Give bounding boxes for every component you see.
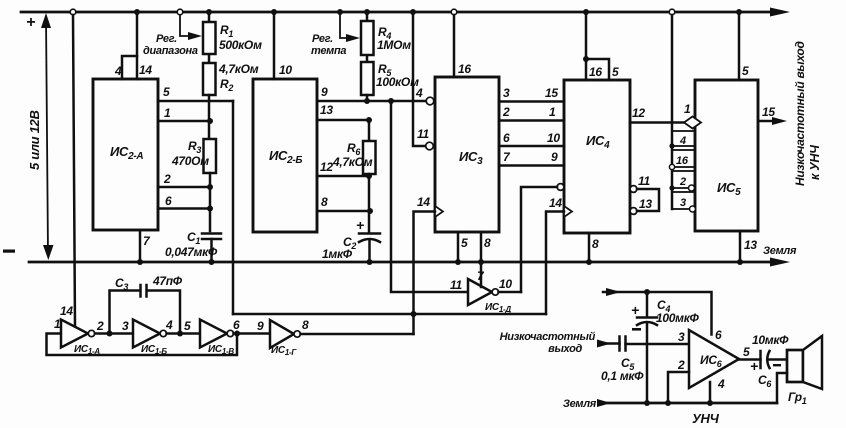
inverter ИС1-Г — [270, 320, 294, 348]
wire IC2-A pin5 to osc bus — [232, 101, 235, 314]
svg-text:500кОм: 500кОм — [219, 38, 262, 52]
svg-text:4: 4 — [679, 135, 686, 147]
wire pin 15 output — [758, 120, 779, 123]
svg-text:3: 3 — [503, 86, 510, 100]
node open circle rail x180 (range pot tap) — [177, 9, 183, 15]
wire supply line with arrow — [603, 292, 712, 335]
resistor R4 — [366, 12, 369, 62]
wire pin 5 output — [739, 358, 761, 361]
wire pin9 net down to IC1-Д input — [391, 101, 468, 292]
svg-text:+: + — [631, 302, 639, 318]
capacitor C5 — [620, 337, 626, 351]
svg-text:5 или 12В: 5 или 12В — [27, 110, 42, 170]
svg-text:C3: C3 — [115, 276, 128, 292]
wire pins 16/5 bracket from rail — [586, 12, 609, 80]
pin 14 clock symbol — [435, 206, 443, 217]
svg-text:C6: C6 — [758, 373, 772, 389]
wire output to x521 — [499, 291, 522, 294]
svg-text:9: 9 — [321, 85, 328, 99]
svg-text:13: 13 — [639, 197, 652, 211]
svg-text:5: 5 — [612, 65, 619, 79]
svg-text:2: 2 — [163, 172, 171, 186]
wire Б out to В in — [167, 332, 201, 335]
svg-text:+: + — [750, 358, 758, 374]
svg-text:+: + — [356, 217, 364, 233]
wire pin 14 clock — [414, 212, 436, 315]
capacitor C3 — [110, 291, 181, 334]
pin 2 box — [672, 171, 695, 188]
svg-text:6: 6 — [165, 194, 172, 208]
node open circle rail x73 — [70, 9, 76, 15]
svg-text:УНЧ: УНЧ — [692, 411, 720, 426]
svg-text:1: 1 — [549, 105, 556, 119]
svg-text:5: 5 — [743, 345, 750, 359]
svg-text:7: 7 — [143, 234, 151, 248]
svg-text:4: 4 — [114, 64, 122, 78]
pin D input circle — [557, 184, 564, 191]
svg-text:10мкФ: 10мкФ — [752, 333, 789, 347]
svg-text:ИС1-В: ИС1-В — [208, 344, 234, 356]
pin 3 box — [672, 192, 695, 209]
wire speaker return — [777, 373, 787, 403]
wire pin 8 to ground — [588, 233, 591, 262]
svg-text:13: 13 — [320, 103, 333, 117]
wire amp ground rail — [599, 402, 777, 405]
svg-text:0,1 мкФ: 0,1 мкФ — [601, 369, 644, 383]
node junction dot pin1/R2 — [207, 118, 213, 124]
svg-text:5: 5 — [163, 85, 170, 99]
svg-text:ИС1-Д: ИС1-Д — [485, 302, 511, 314]
wire pin 13 to ground — [739, 231, 742, 262]
svg-text:10: 10 — [499, 277, 512, 291]
svg-text:ИС1-Б: ИС1-Б — [141, 344, 167, 356]
svg-text:10: 10 — [547, 131, 560, 145]
pin 4 input circle — [426, 97, 434, 105]
wire input arrow — [599, 342, 620, 345]
svg-text:Рег.: Рег. — [156, 33, 177, 45]
node junction dot rail R4 — [364, 9, 370, 15]
wire pin 5 — [158, 100, 233, 103]
wire pin 5 from rail — [738, 12, 741, 80]
node junction dot pin2/R3 — [207, 184, 213, 190]
node junction dot rail R1 — [206, 9, 212, 15]
node open circle rail x672 — [669, 9, 675, 15]
wire range pot tap arrow — [180, 15, 196, 36]
speaker Гр1 — [787, 350, 803, 382]
inverter ИС1-Д — [468, 279, 492, 305]
resistor R3 — [204, 139, 217, 173]
svg-text:16: 16 — [676, 155, 689, 167]
counter U3 ИС3 box — [435, 77, 499, 232]
svg-text:ИС4: ИС4 — [586, 133, 610, 151]
svg-text:диапазона: диапазона — [143, 45, 198, 57]
node minus label — [3, 250, 15, 253]
resistor R2 — [203, 63, 216, 95]
svg-text:4: 4 — [415, 86, 423, 100]
svg-text:100мкФ: 100мкФ — [656, 311, 699, 325]
node junction dot pin7 ground — [137, 259, 143, 265]
wire osc bus horizontal — [233, 313, 546, 316]
wire pin 5 to ground — [457, 232, 460, 262]
wire left pins feed — [671, 15, 674, 209]
wire voltage span arrow line — [46, 17, 48, 254]
wire pin 11 from rail — [413, 12, 426, 146]
svg-text:ИС3: ИС3 — [459, 149, 483, 167]
svg-text:4,7кОм: 4,7кОм — [332, 155, 373, 169]
melody chip U5 ИС5 box — [695, 80, 758, 231]
op-amp U1 ИС2-А box — [93, 79, 158, 230]
svg-text:6: 6 — [715, 328, 722, 342]
wire A out to Б in — [95, 332, 133, 335]
wire +V top rail — [21, 11, 776, 14]
svg-text:4: 4 — [165, 318, 173, 332]
pin 14 clock symbol — [564, 206, 572, 217]
pin 13 circle — [630, 208, 637, 215]
pin 4 box — [672, 131, 695, 146]
wire pin 16 from rail — [453, 15, 456, 77]
svg-text:15: 15 — [762, 105, 775, 119]
inverter ИС1-Б — [133, 320, 160, 348]
svg-text:1: 1 — [164, 106, 171, 120]
svg-text:16: 16 — [458, 62, 471, 76]
svg-text:R2: R2 — [220, 77, 233, 93]
svg-text:1: 1 — [684, 102, 691, 116]
svg-text:4: 4 — [717, 377, 725, 391]
svg-text:C1: C1 — [187, 230, 200, 246]
svg-text:11: 11 — [450, 278, 462, 292]
svg-text:ИС1-А: ИС1-А — [74, 344, 100, 356]
wire C5 to pin 3 — [626, 343, 690, 346]
svg-text:выход: выход — [548, 343, 582, 355]
svg-text:6: 6 — [503, 131, 510, 145]
resistor R5 — [361, 62, 374, 95]
svg-text:1МОм: 1МОм — [377, 38, 411, 52]
svg-text:14: 14 — [60, 304, 73, 318]
node up arrowhead — [41, 13, 51, 28]
svg-text:8: 8 — [302, 318, 309, 332]
node pot arrowhead R1 — [188, 32, 202, 40]
wire pin 12 to IC5 pin1 — [630, 121, 684, 124]
wire pin 1 — [158, 120, 210, 123]
svg-text:ИС5: ИС5 — [717, 180, 741, 198]
svg-text:Земля: Земля — [563, 398, 597, 410]
wire pin 9 — [317, 100, 426, 103]
svg-text:1мкФ: 1мкФ — [322, 247, 353, 261]
svg-text:8: 8 — [484, 236, 491, 250]
wire pin11 to pin13 loop — [637, 189, 659, 211]
node open circle rail pin16 — [451, 9, 457, 15]
node junction dot C4 top — [644, 289, 650, 295]
svg-text:11: 11 — [638, 174, 650, 188]
wire pin 7 to ground — [139, 230, 142, 262]
wire osc vertical to IC1-Г output — [412, 314, 415, 334]
pin 11 circle — [630, 186, 637, 193]
svg-text:14: 14 — [139, 63, 152, 77]
wire ground rail — [29, 261, 776, 264]
svg-text:2: 2 — [96, 319, 104, 333]
op-amp U2 ИС2-Б box — [253, 79, 317, 232]
wire pin 10 from rail — [273, 12, 276, 79]
svg-text:R3: R3 — [188, 139, 201, 155]
svg-text:10: 10 — [279, 63, 292, 77]
svg-text:Низкочастотный выход: Низкочастотный выход — [793, 41, 807, 186]
svg-text:15: 15 — [545, 86, 558, 100]
node +V rail arrow — [770, 8, 790, 17]
svg-text:ИС2-А: ИС2-А — [110, 144, 143, 162]
wire pin 4 — [709, 382, 712, 403]
op-amp ИС6 — [689, 330, 739, 388]
svg-text:12: 12 — [632, 106, 645, 120]
svg-text:12: 12 — [320, 160, 333, 174]
resistor R1 — [208, 12, 211, 63]
svg-text:4,7кОм: 4,7кОм — [218, 62, 259, 76]
svg-text:470Ом: 470Ом — [171, 154, 209, 168]
pin 16 box — [672, 150, 695, 167]
svg-text:3: 3 — [678, 330, 685, 344]
wire pin 2 — [158, 186, 210, 189]
wire pin 2 — [668, 372, 689, 403]
wire IC3 pin2 to IC4 pin1 — [499, 119, 564, 122]
wire IC3 pin6 to IC4 pin10 — [499, 145, 564, 148]
svg-text:Низкочастотный: Низкочастотный — [500, 331, 596, 343]
wire pin 8 — [317, 210, 370, 213]
svg-text:ИС2-Б: ИС2-Б — [269, 148, 302, 166]
svg-text:7: 7 — [503, 150, 511, 164]
svg-text:+: + — [26, 14, 35, 31]
wire pin 6 — [158, 207, 210, 210]
node down arrowhead — [43, 245, 54, 260]
svg-text:R1: R1 — [220, 23, 233, 39]
pin 1 diamond — [684, 117, 701, 129]
capacitor C4 electrolytic — [646, 292, 649, 317]
node junction dot pin6 column — [207, 206, 213, 212]
svg-text:8: 8 — [592, 237, 599, 251]
svg-text:16: 16 — [589, 65, 602, 79]
inverter ИС1-А — [61, 320, 88, 348]
svg-text:3: 3 — [122, 319, 129, 333]
svg-text:2: 2 — [679, 176, 686, 188]
wire IC3 pin3 to IC4 pin15 — [499, 100, 564, 103]
svg-text:Гр1: Гр1 — [788, 390, 807, 406]
svg-text:9: 9 — [257, 319, 264, 333]
node ground rail arrow — [770, 258, 790, 267]
svg-text:11: 11 — [417, 127, 429, 141]
counter U4 ИС4 box — [564, 80, 630, 233]
wire pin 13 — [317, 119, 369, 122]
wire pin 7 ground — [480, 262, 483, 287]
wire Г out to osc bus — [301, 333, 414, 336]
wire pin 8 to ground — [480, 232, 483, 262]
wire pin 14 from rail — [136, 12, 139, 79]
svg-text:47пФ: 47пФ — [152, 274, 183, 288]
svg-text:темпа: темпа — [311, 45, 346, 57]
svg-text:5: 5 — [742, 64, 749, 78]
svg-text:5: 5 — [461, 236, 468, 250]
svg-text:8: 8 — [321, 195, 328, 209]
node junction dot rail x137 — [134, 9, 140, 15]
wire from IC1-Д output up — [521, 187, 557, 292]
wire feedback loop — [47, 334, 238, 356]
wire power to IC1-A pin14 — [73, 15, 75, 327]
wire В out to Г in — [234, 332, 271, 335]
svg-text:9: 9 — [551, 150, 558, 164]
svg-text:6: 6 — [233, 318, 240, 332]
svg-text:Земля: Земля — [763, 245, 797, 257]
svg-text:ИС1-Г: ИС1-Г — [271, 345, 297, 357]
resistor R6 — [368, 120, 371, 141]
svg-text:Рег.: Рег. — [312, 33, 333, 45]
wire IC3 pin7 to IC4 pin9 — [499, 164, 564, 167]
svg-text:14: 14 — [417, 195, 430, 209]
svg-text:2: 2 — [502, 105, 510, 119]
node junction dot rail tempo tap — [337, 9, 343, 15]
svg-text:5: 5 — [184, 319, 191, 333]
svg-text:к УНЧ: к УНЧ — [808, 144, 822, 180]
svg-text:14: 14 — [549, 196, 562, 210]
svg-text:2: 2 — [677, 358, 685, 372]
svg-text:13: 13 — [744, 238, 757, 252]
node junction dot osc bus — [411, 311, 417, 317]
capacitor C1 — [202, 234, 221, 240]
svg-text:3: 3 — [680, 197, 686, 209]
wire pin 14 clock — [546, 212, 564, 315]
capacitor C6 electrolytic — [759, 351, 762, 368]
svg-text:0,047мкФ: 0,047мкФ — [165, 245, 218, 259]
pin 11 input circle — [426, 142, 434, 150]
svg-text:1: 1 — [54, 317, 61, 331]
inverter ИС1-В — [200, 320, 227, 348]
wire tempo pot tap arrow — [340, 15, 353, 38]
wire pin 4 bracket — [122, 56, 137, 79]
wire pin 12 — [317, 175, 369, 178]
